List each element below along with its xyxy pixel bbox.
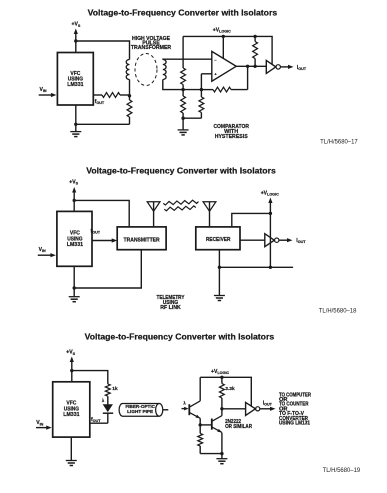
svg-text:TL/H/5680–19: TL/H/5680–19 bbox=[323, 468, 361, 474]
svg-text:RECEIVER: RECEIVER bbox=[206, 237, 231, 243]
power +VS arrow (2) bbox=[72, 187, 76, 193]
node: rail meets ground bus bbox=[269, 266, 272, 269]
node: rail dot at pull-up bbox=[253, 35, 256, 38]
wire: comparator output bbox=[236, 65, 266, 67]
svg-text:Voltage-to-Frequency Converter: Voltage-to-Frequency Converter with Isol… bbox=[86, 166, 276, 175]
transistor Q2 2N2222 bbox=[211, 419, 213, 430]
node: VS dot (3) bbox=[70, 369, 73, 372]
svg-text:VIN: VIN bbox=[40, 87, 47, 93]
node: logic rail dot (2) bbox=[269, 212, 272, 215]
svg-text:TL/H/5680–17: TL/H/5680–17 bbox=[320, 140, 358, 146]
node: VFC ground dot (2) bbox=[73, 286, 76, 289]
resistor R3 base-emitter bbox=[199, 425, 201, 434]
svg-text:LM331: LM331 bbox=[67, 242, 83, 248]
VFC box U1 (3) bbox=[53, 382, 90, 437]
svg-text:fOUT: fOUT bbox=[95, 99, 105, 105]
ground (receiver) bbox=[218, 267, 220, 295]
wire: +VS to LED resistor bbox=[72, 371, 108, 384]
wire: Q2 base bbox=[200, 424, 212, 426]
RF link squiggle lower bbox=[164, 206, 196, 211]
wire: ground bus to R2 bbox=[76, 123, 130, 125]
resistor R3 (divider upper) bbox=[181, 68, 186, 85]
svg-text:fOUT: fOUT bbox=[91, 228, 101, 234]
wire: collector to inverter bbox=[222, 408, 246, 410]
svg-text:VIN: VIN bbox=[39, 247, 46, 253]
svg-text:IOUT: IOUT bbox=[263, 400, 273, 406]
wire: light out of pipe bbox=[163, 409, 169, 411]
node: emitter bus dot bbox=[220, 452, 223, 455]
antenna 1 bbox=[153, 202, 155, 227]
LED D1 bbox=[103, 405, 112, 412]
node: collector junction dot bbox=[220, 407, 223, 410]
svg-text:LM331: LM331 bbox=[63, 412, 79, 418]
VFC box U1 bbox=[57, 53, 93, 106]
wire: fOUT to resistor bbox=[93, 94, 102, 96]
receiver box bbox=[196, 227, 240, 250]
wire: fOUT to transmitter bbox=[92, 240, 113, 242]
wire: +VLOGIC rail bbox=[183, 36, 272, 64]
svg-text:TRANSFORMER: TRANSFORMER bbox=[131, 45, 171, 51]
wire: VIN input with arrow bbox=[39, 94, 53, 96]
svg-text:λ: λ bbox=[183, 401, 186, 406]
ground (VFC 3) bbox=[66, 460, 77, 462]
ground (schematic 1 left) bbox=[75, 124, 77, 131]
resistor R2 3.3k bbox=[221, 377, 223, 383]
svg-text:+: + bbox=[214, 72, 217, 77]
wire: resistor to primary node bbox=[120, 94, 130, 96]
node: ground junction dot bbox=[74, 123, 77, 126]
svg-text:VIN: VIN bbox=[36, 420, 43, 426]
wire: comparator V+ supply bbox=[222, 36, 224, 58]
node: output dot B bbox=[253, 65, 256, 68]
wire: inverter output arrow bbox=[280, 66, 288, 68]
wire: secondary top to comparator bbox=[163, 58, 212, 60]
power +VLOGIC arrow (2) bbox=[268, 198, 272, 204]
wire: Q1 collector up bbox=[199, 377, 201, 401]
node: rail dot at comparator supply bbox=[222, 35, 225, 38]
wire: hysteresis feedback bbox=[247, 66, 249, 89]
node: output dot A bbox=[246, 65, 249, 68]
transformer T1 primary winding bbox=[126, 60, 129, 80]
resistor R7 hysteresis feedback bbox=[201, 89, 213, 91]
wire: ground to transmitter bbox=[74, 250, 141, 288]
wire: LED cathode to fOUT bbox=[107, 413, 109, 423]
phototransistor Q1 bbox=[188, 404, 190, 415]
ground (VFC 2) bbox=[73, 288, 75, 297]
svg-text:+VLOGIC: +VLOGIC bbox=[213, 28, 231, 34]
wire: ground bus (2) bbox=[219, 266, 293, 268]
svg-text:OR SIMILAR: OR SIMILAR bbox=[225, 424, 252, 430]
svg-text:LM331: LM331 bbox=[67, 82, 83, 88]
svg-text:Voltage-to-Frequency Converter: Voltage-to-Frequency Converter with Isol… bbox=[88, 9, 278, 18]
svg-text:TRANSMITTER: TRANSMITTER bbox=[124, 237, 160, 243]
wire: comparator lower input bbox=[201, 73, 211, 75]
svg-text:Voltage-to-Frequency Converter: Voltage-to-Frequency Converter with Isol… bbox=[85, 333, 275, 342]
wire: resistor bottoms join bbox=[183, 117, 201, 119]
resistor R6 pull-up bbox=[254, 36, 256, 41]
ground (schematic 1 divider) bbox=[182, 118, 184, 130]
resistor R2 (primary shunt) bbox=[129, 96, 131, 100]
wire: VIN input arrow (2) bbox=[38, 254, 52, 256]
svg-text:RF LINK: RF LINK bbox=[160, 305, 181, 311]
wire: fOUT pin (3) bbox=[90, 422, 108, 424]
svg-text:USING LM131: USING LM131 bbox=[279, 421, 310, 427]
wire: Q1 emitter down bbox=[199, 418, 201, 425]
resistor R1 1k bbox=[105, 384, 110, 396]
wire: inverter output arrow (3) bbox=[260, 408, 271, 410]
svg-text:+VS: +VS bbox=[66, 350, 75, 356]
svg-text:λ: λ bbox=[102, 398, 105, 403]
svg-text:IOUT: IOUT bbox=[297, 65, 307, 71]
svg-text:fOUT: fOUT bbox=[91, 417, 101, 423]
svg-text:1k: 1k bbox=[112, 386, 118, 392]
inverter U3 buffer bbox=[266, 60, 276, 73]
node: VS junction dot (2) bbox=[73, 199, 76, 202]
RF link squiggle upper bbox=[163, 200, 198, 205]
ground (schematic 3) bbox=[221, 454, 223, 459]
svg-text:3.3k: 3.3k bbox=[225, 386, 235, 392]
node: divider bottom dot bbox=[181, 117, 184, 120]
resistor R1 (fOUT series) bbox=[102, 93, 120, 98]
wire: rail to receiver top bbox=[232, 213, 271, 227]
wire: VFC ground pin (3) bbox=[70, 437, 72, 460]
node: Q1 emitter dot bbox=[199, 423, 202, 426]
wire: primary coil to node bbox=[129, 80, 131, 96]
wire: VIN input arrow (3) bbox=[36, 427, 48, 429]
wire: +VLOGIC rail (3) bbox=[200, 377, 251, 406]
svg-text:−: − bbox=[214, 57, 217, 62]
svg-text:IOUT: IOUT bbox=[296, 238, 306, 244]
VFC box U1 (2) bbox=[57, 211, 92, 266]
svg-text:+VLOGIC: +VLOGIC bbox=[261, 190, 279, 196]
resistor R5 (hysteresis lower) bbox=[200, 90, 202, 97]
resistor R4 (divider lower) bbox=[182, 90, 184, 96]
wire: VFC ground pin bbox=[75, 105, 77, 124]
svg-text:+VS: +VS bbox=[72, 22, 81, 28]
op-amp U2 comparator bbox=[212, 51, 236, 81]
wire: VFC ground pin (2) bbox=[73, 266, 75, 288]
transformer T1 secondary winding bbox=[163, 60, 166, 80]
wire: Q2 collector up bbox=[221, 409, 223, 416]
wire: +VS to transmitter bbox=[74, 200, 129, 227]
light arrow into Q1 bbox=[182, 408, 186, 410]
wire: secondary bottom bbox=[163, 80, 202, 90]
node: ground bus dot (2) bbox=[218, 266, 221, 269]
transmitter box bbox=[117, 227, 166, 250]
power +VS arrow (3) bbox=[70, 357, 74, 363]
wire: receiver out to inverter bbox=[240, 239, 265, 241]
wire: Q2 emitter down bbox=[221, 433, 223, 454]
antenna 2 bbox=[209, 202, 211, 227]
node: rail dot (3) bbox=[220, 376, 223, 379]
wire: resistor to LED bbox=[107, 396, 109, 404]
svg-text:HYSTERESIS: HYSTERESIS bbox=[215, 134, 248, 140]
wire: rail down to divider bbox=[182, 36, 184, 68]
wire: inverter output arrow (2) bbox=[279, 239, 288, 241]
power +VS arrow bbox=[74, 29, 78, 35]
fiber-optic light pipe body bbox=[123, 403, 160, 405]
node: comparator input junction dot bbox=[200, 88, 203, 91]
wire: emitter bus bbox=[200, 453, 222, 455]
svg-text:LIGHT PIPE: LIGHT PIPE bbox=[127, 409, 153, 414]
transformer T1 isolation circle bbox=[135, 54, 157, 86]
inverter U3 buffer (3) bbox=[246, 402, 256, 415]
wire: receiver ground pin bbox=[218, 250, 220, 268]
svg-text:TL/H/5680–18: TL/H/5680–18 bbox=[319, 309, 357, 315]
svg-text:+VS: +VS bbox=[69, 179, 78, 185]
node: VS junction dot bbox=[74, 39, 77, 42]
wire: +VS to transformer primary bbox=[76, 41, 130, 60]
svg-text:+VLOGIC: +VLOGIC bbox=[211, 369, 229, 375]
node: primary bottom junction bbox=[128, 94, 131, 97]
node: divider junction dot bbox=[181, 88, 184, 91]
inverter U2 buffer (2) bbox=[265, 234, 275, 247]
